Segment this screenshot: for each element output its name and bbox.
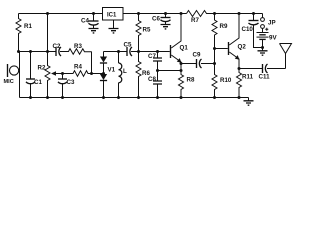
svg-text:R4: R4 [74, 64, 82, 71]
svg-text:R2: R2 [38, 65, 46, 72]
svg-text:C3: C3 [67, 79, 75, 86]
resistor R3 [60, 43, 92, 54]
node dots R4 wire [61, 72, 105, 75]
svg-text:R1: R1 [24, 23, 32, 30]
svg-text:C2: C2 [53, 43, 61, 50]
svg-text:R9: R9 [220, 23, 228, 30]
capacitor C3 [58, 74, 75, 98]
wiper arrow of R2 [51, 71, 63, 75]
ground (bottom rail) [244, 98, 254, 106]
antenna [280, 44, 292, 69]
wire mid-left rail [19, 51, 56, 53]
svg-text:R3: R3 [74, 43, 82, 50]
resistor R4 [63, 64, 104, 77]
node dots bottom rail [29, 96, 241, 99]
resistor R8 [179, 71, 195, 98]
resistor R5 [136, 14, 151, 52]
svg-text:Q1: Q1 [180, 45, 189, 52]
wire Q2 base [215, 48, 228, 50]
svg-text:C4: C4 [81, 18, 89, 25]
ground (IC1) [109, 29, 119, 33]
ground (C6) [161, 25, 171, 29]
svg-text:C9: C9 [193, 52, 201, 59]
wire IC1 bottom pin [113, 20, 115, 28]
op-amp IC1 [103, 8, 124, 21]
svg-text:C1: C1 [34, 79, 42, 86]
capacitor C10 [242, 14, 263, 48]
capacitor C2 [53, 43, 62, 56]
resistor R6 [136, 52, 150, 98]
svg-text:R7: R7 [191, 17, 199, 24]
capacitor C6 [152, 14, 171, 25]
svg-text:C8: C8 [148, 76, 156, 83]
ground (C4) [89, 29, 99, 33]
resistor R10 [212, 64, 232, 98]
capacitor C9 [181, 52, 215, 69]
svg-text:C6: C6 [152, 16, 160, 23]
svg-text:MIC: MIC [4, 79, 14, 85]
transistor Q1 [171, 14, 189, 71]
ground (battery) [258, 48, 268, 56]
svg-text:C5: C5 [124, 42, 132, 49]
svg-text:C11: C11 [259, 74, 271, 81]
resistor R9 [212, 14, 228, 64]
inductor L [119, 52, 128, 98]
varicap diode pair V1 [100, 52, 116, 98]
node dots mid rails [17, 50, 159, 53]
battery 9V [257, 28, 278, 48]
wire top rail [19, 13, 263, 15]
microphone MIC [4, 52, 20, 98]
wire bottom rail [20, 97, 249, 99]
svg-text:C10: C10 [242, 26, 254, 33]
svg-text:V1: V1 [108, 67, 116, 74]
transistor Q2 [229, 14, 247, 69]
svg-text:R8: R8 [187, 77, 195, 84]
svg-text:C7: C7 [148, 53, 156, 60]
capacitor C5 [124, 42, 133, 57]
resistor R11 [237, 69, 254, 98]
potentiometer R2 [38, 14, 51, 98]
svg-text:R10: R10 [220, 77, 232, 84]
capacitor C8 [148, 71, 162, 98]
svg-text:JP: JP [268, 20, 276, 27]
node dots top rail [46, 12, 255, 15]
node dots C9/C8 wires [156, 46, 264, 72]
jumper JP [261, 14, 276, 29]
resistor R1 [16, 14, 32, 52]
svg-text:IC1: IC1 [107, 13, 117, 19]
svg-text:L: L [123, 68, 127, 75]
wire C7/C8 node to emitter [158, 70, 182, 72]
svg-text:R11: R11 [242, 74, 254, 81]
wire R3 to R4 node [91, 52, 93, 74]
wire mid-right rail [104, 51, 170, 53]
capacitor C1 [26, 52, 42, 98]
svg-text:9V: 9V [269, 35, 277, 42]
svg-text:R5: R5 [143, 27, 151, 34]
capacitor C11 [239, 64, 286, 81]
capacitor C7 [148, 52, 162, 71]
svg-text:Q2: Q2 [238, 44, 247, 51]
capacitor C4 [81, 14, 99, 29]
resistor R7 [187, 11, 215, 25]
